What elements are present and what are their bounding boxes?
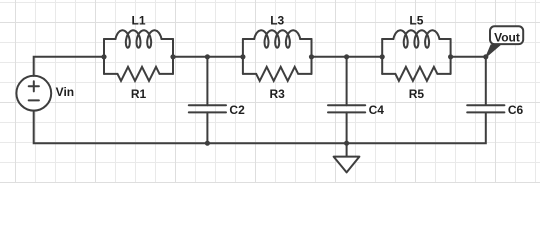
- svg-text:L1: L1: [131, 14, 145, 28]
- wire: [381, 39, 383, 74]
- junction dot: [309, 54, 314, 59]
- inductor L1: [104, 30, 173, 47]
- junction dot: [380, 54, 385, 59]
- junction dot: [240, 54, 245, 59]
- junction dot: [205, 54, 210, 59]
- junction dot: [483, 54, 488, 59]
- wire: [173, 56, 243, 58]
- svg-text:L3: L3: [270, 14, 284, 28]
- wire: [312, 56, 383, 58]
- wire: [172, 39, 174, 74]
- junction dot: [205, 141, 210, 146]
- resistor R5: [382, 67, 450, 81]
- wire: [450, 39, 452, 74]
- junction dot: [101, 54, 106, 59]
- node Vout: [486, 26, 523, 57]
- svg-text:C6: C6: [508, 103, 524, 117]
- junction dot: [448, 54, 453, 59]
- ground: [334, 143, 360, 172]
- svg-text:C4: C4: [369, 103, 385, 117]
- inductor L3: [243, 30, 312, 47]
- svg-text:Vin: Vin: [56, 85, 74, 99]
- wire: [451, 57, 486, 105]
- junction dot: [344, 141, 349, 146]
- svg-text:R1: R1: [131, 87, 147, 101]
- junction dot: [344, 54, 349, 59]
- wire: [103, 39, 105, 74]
- wire: [242, 39, 244, 74]
- svg-text:Vout: Vout: [494, 30, 520, 44]
- svg-text:R5: R5: [409, 87, 425, 101]
- svg-text:C2: C2: [229, 103, 245, 117]
- wire: [34, 57, 104, 76]
- capacitor C2: [189, 57, 226, 143]
- wire: [34, 111, 486, 144]
- wire: [311, 39, 313, 74]
- resistor R1: [104, 67, 173, 81]
- junction dot: [170, 54, 175, 59]
- voltage source Vin: [16, 76, 51, 111]
- capacitor C4: [328, 57, 365, 143]
- capacitor C6: [467, 105, 504, 112]
- inductor L5: [382, 30, 450, 47]
- svg-text:R3: R3: [270, 87, 286, 101]
- svg-text:L5: L5: [409, 14, 423, 28]
- resistor R3: [243, 67, 312, 81]
